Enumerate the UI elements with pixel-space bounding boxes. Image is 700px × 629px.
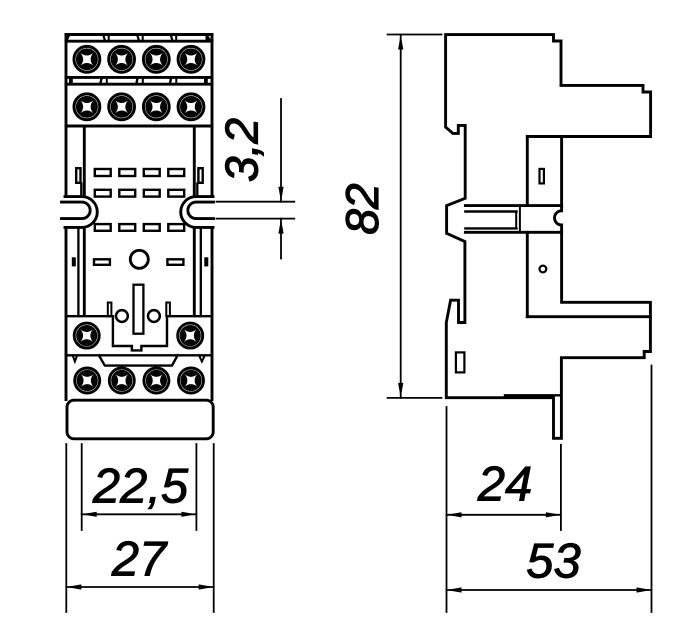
post left: [108, 303, 112, 317]
terminal block line 2: [66, 76, 212, 79]
dim 27 extension lines: [66, 444, 213, 612]
dim text 82: [346, 184, 379, 233]
front view outer body right edge: [211, 35, 214, 400]
section line right: [167, 315, 212, 317]
top band tick marks: [66, 35, 212, 42]
arrow 27 right: [199, 584, 214, 589]
screw terminal row2 screw 1: [74, 94, 100, 120]
terminal block line 3: [66, 83, 212, 86]
arrow 82 bottom: [398, 383, 403, 398]
terminal block bottom line: [66, 125, 212, 128]
arrow 53 right: [637, 587, 652, 592]
dim 82 line: [400, 35, 402, 398]
channel line left above notch: [80, 184, 82, 197]
arrowheads: [66, 35, 651, 593]
front view top edge: [66, 33, 212, 36]
side slot right of circle: [167, 259, 183, 265]
bottom rounded block: [67, 400, 213, 439]
front view outer body left edge: [65, 35, 68, 400]
side pocket rect left: [76, 168, 80, 183]
lower band line: [66, 354, 212, 356]
screw terminal row1 screw 4: [178, 46, 204, 72]
arrow 22,5 right: [181, 512, 196, 517]
contact slots row B: [95, 190, 184, 197]
slider band outer lines: [465, 206, 561, 233]
slider end caps: [516, 206, 520, 233]
screw terminal row2 screw 4: [178, 94, 204, 120]
arrow 27 left: [66, 584, 81, 589]
contact slots row C: [95, 224, 184, 231]
left notch outer C: [65, 197, 97, 228]
small circle left: [116, 310, 128, 322]
dim 22,5 line: [82, 513, 197, 515]
dim 53 line: [447, 589, 652, 591]
top block bottom interior line: [527, 135, 561, 138]
side view outer profile: [446, 35, 651, 439]
inner wall right: [193, 126, 196, 316]
small hole circle: [540, 266, 547, 273]
screw row bottom screw 3: [144, 368, 169, 393]
side pocket rect right: [198, 168, 202, 183]
middle band tick marks: [69, 77, 208, 84]
screw terminal row2 screw 3: [143, 94, 169, 120]
screw row bottom screw 1: [75, 368, 100, 393]
post right: [166, 303, 170, 317]
dim text 53: [527, 543, 580, 578]
arrow 22,5 left: [82, 512, 97, 517]
DIMENSIONS: [66, 35, 651, 613]
right notch outer C: [181, 197, 213, 228]
screw row bottom screw 4: [179, 368, 204, 393]
arrow 82 top: [398, 35, 403, 50]
dim 24 extension lines: [447, 407, 561, 612]
screw row bottom screw 2: [109, 368, 134, 393]
right column left edge: [526, 137, 529, 317]
band notch tick left: [73, 355, 78, 361]
side slot left of circle: [94, 259, 110, 265]
channel line left below notch: [77, 227, 79, 316]
dim text 27: [112, 541, 168, 575]
center guide bar: [134, 285, 144, 334]
section line left: [66, 315, 113, 317]
channel line right above notch: [196, 184, 198, 197]
screw terminal row2 screw 2: [109, 94, 135, 120]
contact slots row A: [95, 169, 184, 176]
dim text 22,5: [93, 468, 189, 509]
dim 82 extension top: [388, 34, 442, 36]
left notch inner slot: [62, 202, 91, 219]
terminal block line 1: [66, 40, 212, 43]
channel line right below notch: [200, 227, 202, 316]
small circle right: [148, 310, 160, 322]
arrow 24 right: [546, 512, 561, 517]
small slot hole upper column: [540, 169, 544, 184]
dim text 24: [478, 466, 531, 500]
arrow 3,2 lower: [278, 219, 283, 234]
lower trapezoid recess: [99, 355, 178, 365]
slider band inner lines: [465, 212, 516, 229]
right notch inner slot: [188, 202, 214, 219]
dim 24 line: [447, 514, 561, 516]
mounting screw left: [74, 323, 99, 348]
rail groove interior line: [527, 315, 650, 318]
screw terminal row1 screw 1: [74, 46, 100, 72]
dim 53 extension right: [651, 366, 653, 613]
bottom interior step line: [505, 394, 561, 396]
dim 82 extension bottom: [388, 397, 442, 399]
band notch tick right: [199, 355, 205, 361]
screw terminal row1 screw 3: [143, 46, 169, 72]
inner wall left: [83, 126, 86, 316]
mounting screw right: [178, 323, 203, 348]
dim text 3,2: [225, 119, 263, 181]
arrow 53 left: [447, 587, 462, 592]
small wall square left: [73, 258, 75, 265]
center circle: [130, 250, 148, 268]
arrow 24 left: [447, 512, 462, 517]
dim 3,2 leader lines: [280, 99, 282, 259]
small wall square right: [205, 258, 207, 265]
screw terminal row1 screw 2: [109, 46, 135, 72]
arrow 3,2 upper: [278, 187, 283, 202]
dim 3,2 extension lines: [217, 202, 295, 219]
dim 22,5 extension lines: [82, 444, 197, 530]
center pocket: [113, 316, 167, 350]
small slot hole bottom block: [456, 352, 465, 372]
dim 27 line: [66, 586, 213, 588]
